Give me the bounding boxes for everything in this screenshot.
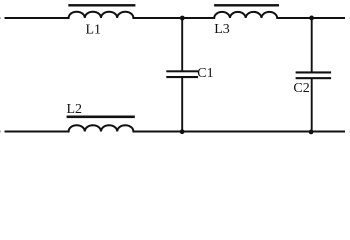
wire bottom rail with inductor L2 — [5, 125, 346, 131]
svg-text:L3: L3 — [214, 22, 230, 37]
capacitor C1 top plate — [166, 70, 198, 72]
inductor L3 core bar — [214, 4, 279, 6]
wire C1 vertical bottom segment — [181, 77, 183, 132]
node junction top-left — [180, 16, 185, 21]
node junction bottom-right — [309, 130, 314, 135]
wire C2 vertical top segment — [311, 18, 313, 72]
svg-text:C2: C2 — [293, 81, 309, 96]
svg-text:L1: L1 — [86, 23, 102, 38]
inductor L1 core bar — [68, 4, 135, 6]
inductor L2 core bar — [67, 116, 135, 119]
port mark left bottom — [0, 131, 1, 133]
capacitor C1 bottom plate — [166, 76, 198, 78]
svg-text:L2: L2 — [67, 102, 83, 117]
port mark left top — [0, 17, 1, 19]
svg-text:C1: C1 — [197, 66, 213, 81]
wire C1 vertical top segment — [181, 18, 183, 71]
node junction bottom-left — [180, 129, 185, 134]
wire top rail with inductors L1 and L3 — [5, 12, 346, 18]
capacitor C2 bottom plate — [296, 77, 332, 79]
node junction top-right — [309, 16, 314, 21]
port mark right bottom — [348, 131, 350, 133]
capacitor C2 top plate — [296, 71, 332, 73]
port mark right top — [348, 17, 350, 19]
wire C2 vertical bottom segment — [311, 78, 313, 131]
